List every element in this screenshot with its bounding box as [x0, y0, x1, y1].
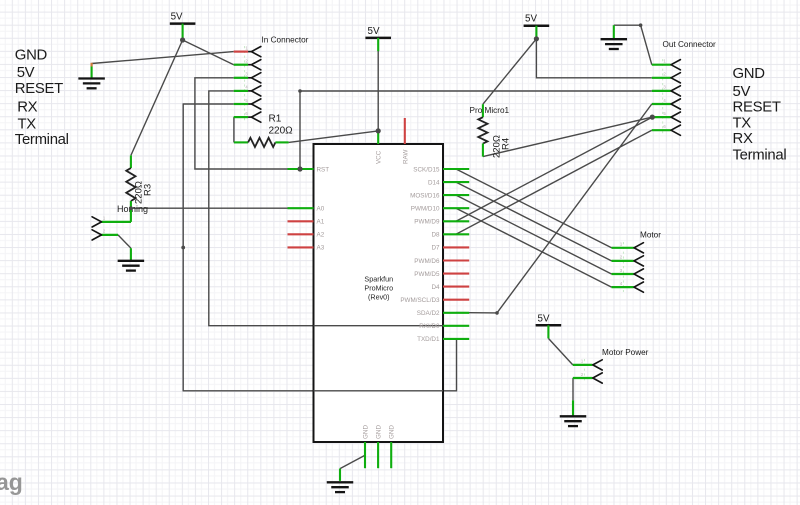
wire In pin4 to RXI/D0: [209, 91, 456, 326]
Out Connector pin 3 head: [671, 86, 680, 96]
svg-text:MOSI/D16: MOSI/D16: [410, 192, 440, 199]
corner node top ground: [639, 23, 643, 27]
Out Connector pin 2 head: [671, 73, 680, 83]
In Connector pin 5 head: [248, 103, 251, 105]
wire GND to In Connector pin 1: [92, 52, 234, 64]
5V supply symbol above IC: [365, 26, 391, 38]
junction at Out pin 5: [650, 115, 655, 120]
svg-text:GND: GND: [15, 47, 48, 63]
svg-text:ProMicro: ProMicro: [364, 284, 393, 293]
IC pin VCC: [377, 131, 379, 144]
Out Connector pin 4 pad: [652, 103, 671, 105]
Out Connector pin 2 pad: [652, 77, 671, 79]
wire In pin5 to TXD/D1: [183, 104, 456, 391]
resistor R1 right lead: [275, 141, 288, 143]
svg-text:GND: GND: [363, 425, 370, 439]
wire SCK/D15 to Motor pin 1: [456, 169, 612, 248]
5V pin stub (top left): [182, 24, 184, 40]
resistor R4 bottom lead: [482, 144, 484, 157]
resistor R4: [478, 117, 487, 143]
IC pin TXD/D1: [443, 338, 469, 340]
5V pin stub above IC: [377, 38, 379, 51]
svg-text:D14: D14: [428, 179, 440, 186]
In Connector frame line: [244, 46, 246, 122]
svg-text:GND: GND: [733, 66, 766, 82]
IC pin RXI/D0: [443, 325, 469, 327]
Homing pin 2 head: [92, 230, 101, 240]
svg-text:220Ω: 220Ω: [492, 135, 503, 158]
5V pin stub (Motor Power): [547, 325, 549, 338]
svg-text:A3: A3: [317, 245, 325, 252]
corner node SDA net: [495, 311, 499, 315]
Out Connector pin 6 pad: [652, 129, 671, 131]
svg-text:220Ω: 220Ω: [134, 181, 145, 204]
svg-text:VCC: VCC: [376, 150, 383, 164]
left ground wire end marker: [90, 63, 92, 67]
Out Connector pin 5 pad: [652, 116, 671, 118]
resistor R3: [126, 168, 135, 201]
svg-text:A2: A2: [317, 232, 325, 239]
svg-text:GND: GND: [389, 425, 396, 439]
svg-text:5V: 5V: [733, 84, 751, 100]
ground symbol (Homing): [118, 261, 144, 271]
junction at 5V Pro Micro1: [534, 36, 539, 41]
Motor pin 2 pad: [612, 260, 634, 262]
IC pin D4: [443, 286, 469, 288]
wire 5V junction to In Connector pin 2: [183, 40, 234, 65]
wire In pin6 down to R1 left: [233, 117, 235, 142]
svg-text:RX: RX: [733, 131, 753, 147]
IC pin GND3: [390, 442, 392, 468]
svg-text:SDA/D2: SDA/D2: [417, 310, 440, 317]
In Connector pin 2 pad: [234, 64, 248, 66]
wire 5V to Out pin 2: [536, 39, 651, 78]
svg-text:5V: 5V: [368, 26, 380, 37]
Motor pin 2 head: [634, 256, 643, 266]
Homing pin 2 pad: [102, 234, 119, 236]
wire In pin3 to RST: [195, 78, 300, 169]
Motor pin 1 pad: [612, 247, 634, 249]
IC ground pin stub: [339, 469, 341, 481]
IC pin A1: [288, 220, 314, 222]
junction at 5V top left: [180, 37, 185, 42]
Motor pin 3 pad: [612, 273, 634, 275]
svg-text:A0: A0: [317, 206, 325, 213]
svg-text:D4: D4: [431, 284, 440, 291]
IC pin GND2: [377, 442, 379, 468]
5V supply symbol (top left): [170, 12, 196, 24]
IC pin GND1: [364, 442, 366, 468]
Motor pin 4 pad: [612, 286, 634, 288]
Motor pin 1 head: [634, 243, 643, 253]
IC pin A3: [288, 246, 314, 248]
svg-text:PWM/SCL/D3: PWM/SCL/D3: [400, 297, 440, 304]
svg-text:A1: A1: [317, 219, 325, 226]
svg-text:RST: RST: [317, 166, 330, 173]
svg-text:RAW: RAW: [402, 149, 409, 164]
Motor pin 3 head: [634, 269, 643, 279]
svg-text:Motor: Motor: [640, 230, 661, 239]
svg-text:PWM/D9: PWM/D9: [414, 219, 440, 226]
junction at VCC: [376, 128, 381, 133]
IC pin SDA/D2: [443, 312, 469, 314]
IC pin PWM/D6: [443, 259, 469, 261]
svg-text:PWM/D10: PWM/D10: [411, 206, 440, 213]
svg-text:Motor Power: Motor Power: [602, 348, 649, 357]
svg-text:TX: TX: [733, 115, 752, 131]
In Connector pin 6 pad: [234, 116, 248, 118]
wire D14 to Motor pin 2: [456, 182, 612, 261]
wire Homing pin2 to ground: [118, 235, 131, 248]
ground symbol (top left): [78, 79, 105, 89]
junction at RST: [297, 166, 302, 171]
svg-text:PWM/D6: PWM/D6: [414, 258, 440, 265]
wire R1 right to VCC junction: [289, 131, 379, 143]
Motor Power pin 1 pad: [573, 364, 593, 366]
svg-text:SCK/D15: SCK/D15: [413, 166, 440, 173]
In Connector pin 2 head: [248, 64, 251, 66]
5V supply symbol (Motor Power): [536, 313, 562, 325]
svg-text:RXI/D0: RXI/D0: [419, 323, 440, 330]
Out Connector pin 6 head: [671, 125, 680, 135]
wire RESET net vertical: [299, 91, 301, 169]
wire IC GND pin to ground: [340, 455, 365, 468]
svg-text:R1: R1: [269, 114, 282, 125]
In Connector pin 5 pad: [234, 103, 248, 105]
wire crossing IC to RXI/D0: [314, 325, 457, 327]
svg-text:D8: D8: [431, 232, 440, 239]
Out Connector pin 3 pad: [652, 90, 671, 92]
svg-text:5V: 5V: [538, 313, 550, 324]
IC pin PWM/D10: [443, 207, 469, 209]
IC pin PWM/D9: [443, 220, 469, 222]
wire 5V top symbol down to VCC junction: [377, 38, 379, 131]
resistor R1: [248, 138, 275, 147]
Homing pin 1 head: [92, 217, 101, 227]
resistor R3 bottom lead: [130, 201, 132, 208]
Out Connector pin 1 head: [671, 60, 680, 70]
Homing net pin1 riser: [130, 208, 132, 222]
IC pin D7: [443, 246, 469, 248]
IC U1 Sparkfun ProMicro body: [314, 144, 444, 442]
svg-text:Terminal: Terminal: [733, 148, 787, 164]
wire RESET net horizontal to Out pin 3: [300, 90, 652, 92]
svg-text:RX: RX: [17, 100, 37, 116]
wire PWM/D10 to Motor pin 4: [456, 208, 612, 287]
Motor Power frame line: [583, 359, 585, 383]
svg-text:220Ω: 220Ω: [269, 126, 294, 137]
Motor Power pin 2 pad: [573, 377, 593, 379]
wire 5V junction to R4 top: [483, 39, 537, 104]
svg-text:Terminal: Terminal: [15, 132, 69, 148]
svg-text:PWM/D5: PWM/D5: [414, 271, 440, 278]
svg-text:In Connector: In Connector: [262, 35, 309, 44]
left terminal labels: [15, 47, 69, 148]
svg-text:(Rev0): (Rev0): [368, 293, 390, 302]
wire 5V junction to R3 top: [131, 40, 183, 155]
IC pin A0: [288, 207, 314, 209]
IC pin D14: [443, 181, 469, 183]
wire R4 bottom to Out pin5 junction: [483, 117, 652, 157]
wire D8 to Out pin 6: [456, 130, 652, 234]
Out Connector pin 4 head: [671, 99, 680, 109]
svg-text:ag: ag: [0, 469, 23, 495]
IC pin PWM/D5: [443, 273, 469, 275]
In Connector pin 4 head: [248, 90, 251, 92]
svg-text:Sparkfun: Sparkfun: [364, 275, 393, 284]
IC pin A2: [288, 233, 314, 235]
In Connector pin 4 pad: [234, 90, 248, 92]
resistor R3 top lead: [130, 155, 132, 168]
IC pin MOSI/D16: [443, 194, 469, 196]
Homing pin 1 pad: [102, 221, 132, 223]
svg-text:Out Connector: Out Connector: [663, 40, 717, 49]
top-right ground pin stub: [613, 25, 615, 38]
IC pin SCK/D15: [443, 168, 469, 170]
wire PWM/D9 to Out pin5 junction: [456, 117, 652, 221]
junction at Homing net: [129, 206, 133, 210]
svg-text:D7: D7: [431, 245, 440, 252]
Motor Power pin 1 head: [593, 360, 602, 370]
IC pin RAW: [404, 118, 406, 144]
corner node RESET net: [298, 89, 302, 93]
5V supply symbol (Pro Micro1): [524, 14, 550, 26]
ground symbol (top right): [601, 39, 628, 49]
wire SDA/D2 to Out pin 4: [456, 104, 652, 313]
svg-text:GND: GND: [376, 425, 383, 439]
Motor Power ground pin stub: [572, 400, 574, 415]
junction on In pin5 riser: [181, 246, 185, 250]
IC pin RST: [288, 168, 314, 170]
wire top ground to Out pin 1: [614, 25, 652, 64]
wire 5V to Motor Power pin 1: [548, 338, 572, 365]
svg-text:RESET: RESET: [733, 99, 781, 115]
wire Motor Power pin2 to ground: [572, 378, 574, 400]
In Connector pin 1 pad: [234, 50, 248, 52]
wire Homing net to A0: [131, 207, 288, 209]
Motor Power pin 2 head: [593, 373, 602, 383]
ground symbol (Motor Power): [560, 416, 587, 426]
Out Connector pin 1 pad: [652, 64, 671, 66]
5V pin stub (Pro Micro1): [535, 26, 537, 39]
wire crossing IC on TXD/D1 return: [314, 390, 444, 392]
wire MOSI/D16 to Motor pin 3: [456, 195, 612, 274]
resistor R1 left lead: [234, 141, 248, 143]
IC pin PWM/SCL/D3: [443, 299, 469, 301]
left ground pin stub: [91, 67, 93, 78]
Homing ground pin stub: [130, 248, 132, 260]
svg-text:5V: 5V: [17, 65, 35, 81]
Motor frame line: [622, 242, 624, 292]
svg-text:5V: 5V: [525, 14, 537, 25]
Out Connector frame line: [662, 59, 664, 135]
In Connector pin 6 head: [248, 116, 251, 118]
svg-text:RESET: RESET: [15, 81, 63, 97]
right terminal labels: [733, 66, 787, 164]
Out Connector pin 5 head: [671, 112, 680, 122]
IC pin D8: [443, 233, 469, 235]
In Connector pin 3 head: [248, 77, 251, 79]
svg-text:5V: 5V: [171, 12, 183, 23]
ground symbol below IC: [327, 482, 354, 492]
svg-text:TX: TX: [18, 117, 37, 133]
In Connector pin 1 head: [248, 51, 251, 53]
svg-text:Pro Micro1: Pro Micro1: [470, 106, 510, 115]
resistor R4 top lead: [482, 104, 484, 117]
In Connector pin 3 pad: [234, 77, 248, 79]
Motor pin 4 head: [634, 282, 643, 292]
svg-text:TXD/D1: TXD/D1: [417, 336, 440, 343]
